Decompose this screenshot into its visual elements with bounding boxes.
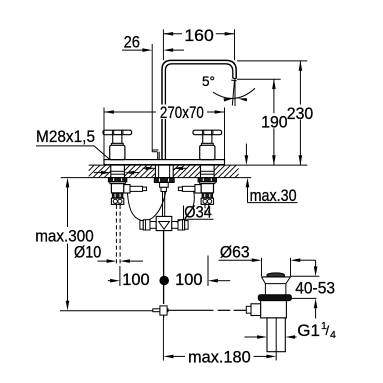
svg-text:160: 160 (184, 26, 213, 45)
spout outer profile (162, 60, 236, 159)
dim O10 (98, 260, 107, 262)
countertop hatching (89, 165, 239, 178)
ref line flange underside (291, 275, 320, 277)
T-fitting right cap (185, 221, 188, 230)
svg-text:G1: G1 (297, 321, 320, 340)
dim max.300 (67, 186, 69, 227)
dim 190 (273, 79, 275, 113)
left valve side fitting (124, 185, 130, 193)
ref line spout outlet level (237, 78, 281, 80)
svg-text:230: 230 (287, 104, 314, 123)
left handle cross handle bar (103, 130, 132, 135)
5 deg arc with arrows (213, 88, 255, 98)
drain seal collar (black) (258, 295, 291, 301)
spout outlet centerline (234, 79, 236, 106)
drain centerline extension (275, 318, 277, 360)
drain body (261, 301, 287, 318)
right valve hose coupling with two ports (201, 198, 213, 204)
drain tailpipe G1 1/4 (267, 318, 285, 352)
right valve side fitting (195, 185, 201, 193)
M28 leader (36, 146, 110, 160)
right handle stem (203, 135, 212, 144)
right hose arc (184, 191, 194, 220)
O34 underline + leader (184, 206, 214, 220)
countertop deck bottom line (61, 177, 252, 179)
rod knob dot (159, 276, 169, 286)
T-fitting left nut (143, 220, 150, 230)
spout outlet end (233, 77, 236, 80)
svg-text:270x70: 270x70 (160, 103, 204, 122)
T-fitting center block (156, 216, 172, 230)
svg-text:100: 100 (122, 270, 149, 289)
left handle valve body above deck (110, 145, 125, 159)
pop-up rod (double line) (162, 192, 164, 217)
svg-text:/: / (326, 323, 330, 338)
svg-text:Ø63: Ø63 (220, 243, 250, 262)
right valve lower nut (202, 193, 212, 198)
dim 100-100 ticks (119, 266, 121, 286)
dim 270x70 (104, 111, 156, 113)
pop-up knob stub (152, 150, 158, 152)
max.300 bottom ref line (60, 310, 153, 312)
hole dim arrows center shank O34 (143, 167, 147, 169)
svg-text:4: 4 (330, 329, 336, 341)
right valve short dashed hose stubs (204, 205, 206, 213)
ref line locknut top (291, 297, 316, 299)
dim 40-53 (315, 260, 317, 267)
dim 100 right (218, 280, 231, 282)
O63 ext lines (261, 258, 263, 277)
svg-text:100: 100 (175, 270, 202, 289)
ext line plate right (224, 108, 226, 166)
spout inner profile (165, 64, 232, 160)
T-fitting left cap (140, 221, 143, 230)
ext line spout outlet axis (upper) (234, 29, 236, 60)
svg-text:M28x1,5: M28x1,5 (36, 127, 95, 146)
right handle valve body above deck (200, 145, 215, 159)
left hose arc (128, 192, 166, 221)
center rod housing (161, 187, 166, 191)
left valve shank through deck (111, 165, 125, 178)
G1 1/4 dim arrows at tailpipe (244, 336, 257, 338)
dim O63 (219, 259, 252, 261)
left valve body (111, 184, 123, 193)
left handle stem (113, 135, 122, 144)
svg-text:40-53: 40-53 (295, 279, 335, 298)
ext rod line down (162, 319, 164, 361)
right valve shank through deck (201, 165, 215, 178)
faucet base plate 270x70 side view (104, 160, 225, 165)
ext line plate left (103, 108, 105, 160)
svg-text:Ø34: Ø34 (184, 202, 212, 221)
right handle cross handle bar (193, 130, 222, 135)
dim 26 (122, 49, 143, 51)
drain plug dome (267, 273, 285, 277)
left valve hose coupling with two ports (111, 198, 123, 204)
dim 100 left (108, 280, 111, 282)
drain clamp knob (246, 306, 251, 313)
center rod guide (160, 183, 169, 188)
dim max.30 lower arrow + leader (247, 188, 249, 203)
dim max.180 (164, 355, 174, 359)
drain lever clamp (251, 304, 261, 316)
spout outlet 5 deg tilted axis (232, 79, 234, 105)
drain flange top (262, 276, 291, 278)
svg-text:190: 190 (261, 113, 288, 132)
left valve lower nut (112, 193, 122, 198)
left valve flexible hose dashed lines (O10) (115, 205, 117, 266)
rod below knob (163, 285, 165, 304)
left valve locknut (108, 178, 126, 182)
svg-text:26: 26 (124, 32, 140, 51)
svg-text:Ø10: Ø10 (74, 243, 101, 262)
drain flange neck (262, 277, 291, 284)
T-fitting left pipe (150, 222, 156, 229)
svg-text:max.180: max.180 (188, 348, 251, 367)
dim 230 (299, 61, 301, 105)
T-fitting right pipe (172, 222, 178, 229)
right valve locknut (198, 178, 216, 182)
countertop deck top line (89, 164, 308, 166)
ext line pop-up rod axis (151, 44, 153, 150)
svg-text:max.30: max.30 (250, 186, 297, 205)
svg-text:5°: 5° (202, 73, 215, 89)
center locknut (154, 178, 174, 183)
horizontal pop-up lever rod (168, 309, 214, 311)
pop-up rod lower section (163, 231, 165, 276)
ext line spout riser axis (162, 29, 164, 60)
right valve body (201, 184, 213, 193)
hole dim arrows left shank (94, 172, 102, 174)
dim max.30 upper arrow (245, 144, 247, 156)
T-fitting funnel (159, 222, 170, 230)
pivot crosspiece (153, 309, 168, 312)
dim 160 (163, 33, 182, 35)
ref line spout top level (237, 60, 307, 62)
T-fitting right nut (178, 220, 185, 230)
center shank escutcheon through deck (155, 165, 173, 178)
